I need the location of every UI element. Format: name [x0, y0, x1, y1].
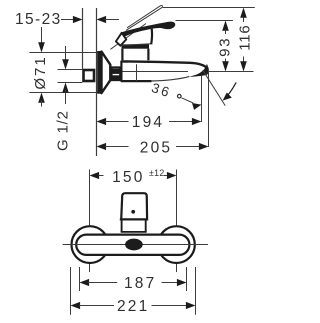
dimension G12 arrow down [62, 59, 69, 69]
wall line left [82, 8, 84, 69]
dimension 187 arrow left [80, 279, 90, 286]
dimension 194 arrow left [97, 118, 107, 125]
dimension 150 line left [98, 175, 103, 177]
dimension 205 arrow left [97, 143, 107, 150]
dimension G12 extension line bottom [58, 82, 83, 84]
horizontal center line [63, 244, 208, 246]
svg-text:194: 194 [132, 114, 164, 131]
dimension 150 line right [164, 175, 169, 177]
dimension O71 extension line bottom [29, 92, 97, 94]
dimension 194 arrow right [192, 118, 202, 125]
front collar bottom line [121, 231, 147, 233]
front lever [121, 193, 147, 219]
dimension O71 arrow down [38, 42, 45, 52]
dimension 205 arrow right [199, 143, 209, 150]
dimension 221 line right [152, 305, 188, 307]
extension line 93 top [176, 20, 234, 22]
curved angle arrowhead [223, 93, 232, 101]
dimension 221 line left [79, 305, 114, 307]
label 36 degree circle [178, 94, 182, 98]
dimension 15-23 leader right [105, 19, 120, 21]
lever base bar [122, 44, 150, 48]
body bottom edge [121, 80, 152, 82]
dimension 187 line right [162, 282, 179, 284]
flange cone [102, 52, 111, 94]
lever neck right edge [150, 29, 153, 45]
center line left inlet vertical [89, 170, 91, 273]
dimension 187 arrow right [177, 279, 187, 286]
escutcheon circle left [72, 226, 109, 263]
svg-text:G 1/2: G 1/2 [54, 110, 71, 151]
front aerator ellipse [125, 239, 143, 251]
center line right inlet vertical [176, 170, 178, 273]
svg-text:93: 93 [217, 37, 234, 57]
dimension 116 arrow down [240, 61, 247, 71]
dimension 221 arrow left [71, 302, 81, 309]
front body capsule [76, 235, 189, 255]
front lever bottom line [120, 219, 148, 221]
lever neck bottom line [121, 44, 151, 46]
flange base plate [97, 51, 102, 94]
front collar right line [145, 220, 147, 233]
extension line 187 left [79, 267, 81, 291]
svg-text:150: 150 [112, 169, 144, 186]
dimension G12 extension line top [58, 69, 83, 71]
nipple nut shade bottom [112, 75, 120, 80]
extension line aerator vertical [201, 76, 203, 122]
extension line 116 top [163, 7, 255, 9]
curved angle arrow [225, 82, 237, 98]
lever blade closed [121, 22, 176, 38]
dimension 221 arrow right [186, 302, 196, 309]
raised lever pivot line [111, 24, 147, 50]
extension line 187 right [186, 267, 188, 291]
dimension O71 lower tail [41, 100, 43, 107]
svg-text:15-23: 15-23 [15, 11, 62, 28]
dimension 205 line left [105, 146, 129, 148]
body inner vertical line [136, 64, 138, 81]
dimension 150 arrow left [90, 172, 100, 179]
escutcheon circle right [158, 226, 195, 263]
dimension 194 line left [105, 121, 129, 123]
dimension G12 arrow up [62, 83, 69, 93]
raised lever tip [161, 5, 163, 7]
dimension 116 arrow up [240, 8, 247, 18]
dimension 93 upper stub [225, 30, 227, 35]
dimension 150 arrow right [167, 172, 177, 179]
body and spout top edge [121, 61, 208, 68]
dimension 187 line left [88, 282, 118, 284]
dimension O71 extension line top [29, 52, 97, 54]
wall line right [96, 8, 98, 156]
dimension 93 arrow up [222, 21, 229, 31]
lever front hook [116, 33, 126, 46]
outlet reference line [209, 71, 254, 73]
dimension 205 line right [176, 146, 200, 148]
cartridge collar [122, 49, 148, 61]
body fill [121, 61, 208, 81]
dimension G12 lower tail [65, 90, 67, 104]
body inner horizontal line [123, 71, 189, 73]
dimension 15-23 leader left [61, 19, 74, 21]
aerator wedge [189, 64, 209, 77]
svg-text:205: 205 [140, 140, 172, 157]
dimension 15-23 arrow right-pointing [73, 16, 83, 23]
body left edge [120, 61, 122, 82]
spout underside thin edge [151, 77, 189, 81]
raised lever line upper [127, 5, 161, 27]
dimension 116 lower stub [243, 57, 245, 63]
spray angle diagonal [203, 70, 225, 105]
svg-text:187: 187 [124, 275, 156, 292]
svg-text:Ø71: Ø71 [32, 55, 49, 89]
extension line spout tip vertical [208, 71, 210, 148]
dimension O71 arrow up [38, 93, 45, 103]
dimension O71 upper tail [41, 27, 43, 45]
dimension 116 upper stub [243, 18, 245, 23]
label 36 leader [182, 98, 194, 103]
extension line 221 right [195, 267, 197, 315]
front collar left line [121, 220, 123, 233]
svg-text:116: 116 [237, 24, 254, 50]
nipple nut shade top [112, 69, 120, 74]
front lever dot [131, 210, 135, 214]
dimension 93 lower stub [225, 59, 227, 64]
svg-text:±12: ±12 [149, 168, 165, 178]
dimension G12 upper tail [65, 46, 67, 62]
label 36 arrow [192, 103, 201, 110]
dimension 15-23 arrow left-pointing [97, 16, 107, 23]
dimension 194 line right [169, 121, 193, 123]
dimension 93 arrow down [222, 61, 229, 71]
pipe box in wall [84, 70, 95, 81]
nipple nut [111, 68, 120, 81]
svg-text:221: 221 [117, 298, 149, 315]
extension line 221 left [70, 267, 72, 315]
raised lever line lower [126, 7, 162, 30]
